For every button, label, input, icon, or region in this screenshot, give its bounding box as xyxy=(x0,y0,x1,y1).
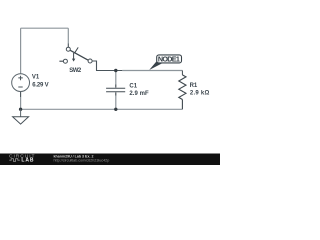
svg-text:LAB: LAB xyxy=(21,158,34,164)
svg-text:2.9 kΩ: 2.9 kΩ xyxy=(190,90,210,96)
logo waveform xyxy=(9,159,19,162)
resistor R1 xyxy=(179,71,186,110)
svg-text:R1: R1 xyxy=(190,83,198,89)
lead V1 bottom xyxy=(20,92,22,98)
wire V1 bottom to rail xyxy=(20,97,22,109)
wire node rail dark part xyxy=(96,70,122,72)
node junction dot C1 top xyxy=(114,69,117,72)
wire bottom rail xyxy=(21,108,183,110)
wire C1 bottom xyxy=(115,96,117,110)
wire corner down to SW2 xyxy=(67,28,69,43)
voltage source V1 xyxy=(12,74,30,92)
svg-text:http://circuitlab.com/c62h23iu: http://circuitlab.com/c62h23iuc42p xyxy=(54,159,110,163)
wire node rail light part xyxy=(122,70,182,72)
wire SW2 throw step xyxy=(92,61,96,71)
node junction dot V1 bottom xyxy=(19,108,22,111)
svg-text:C1: C1 xyxy=(129,83,137,89)
svg-text:6.29 V: 6.29 V xyxy=(32,82,49,88)
footer bar xyxy=(0,154,220,166)
wire C1 top xyxy=(115,71,117,85)
capacitor C1 xyxy=(106,85,125,96)
node junction dot C1 bottom xyxy=(114,108,117,111)
svg-text:NODE1: NODE1 xyxy=(158,54,180,63)
svg-text:V1: V1 xyxy=(32,74,40,80)
wire V1 top to corner xyxy=(20,28,22,74)
node flag NODE1 xyxy=(149,54,181,70)
wire top rail xyxy=(21,27,69,29)
switch SW2 xyxy=(59,47,92,63)
svg-text:SW2: SW2 xyxy=(69,68,82,74)
ground xyxy=(13,109,29,124)
svg-text:2.9 mF: 2.9 mF xyxy=(129,91,149,97)
lead SW2 common xyxy=(67,44,69,48)
